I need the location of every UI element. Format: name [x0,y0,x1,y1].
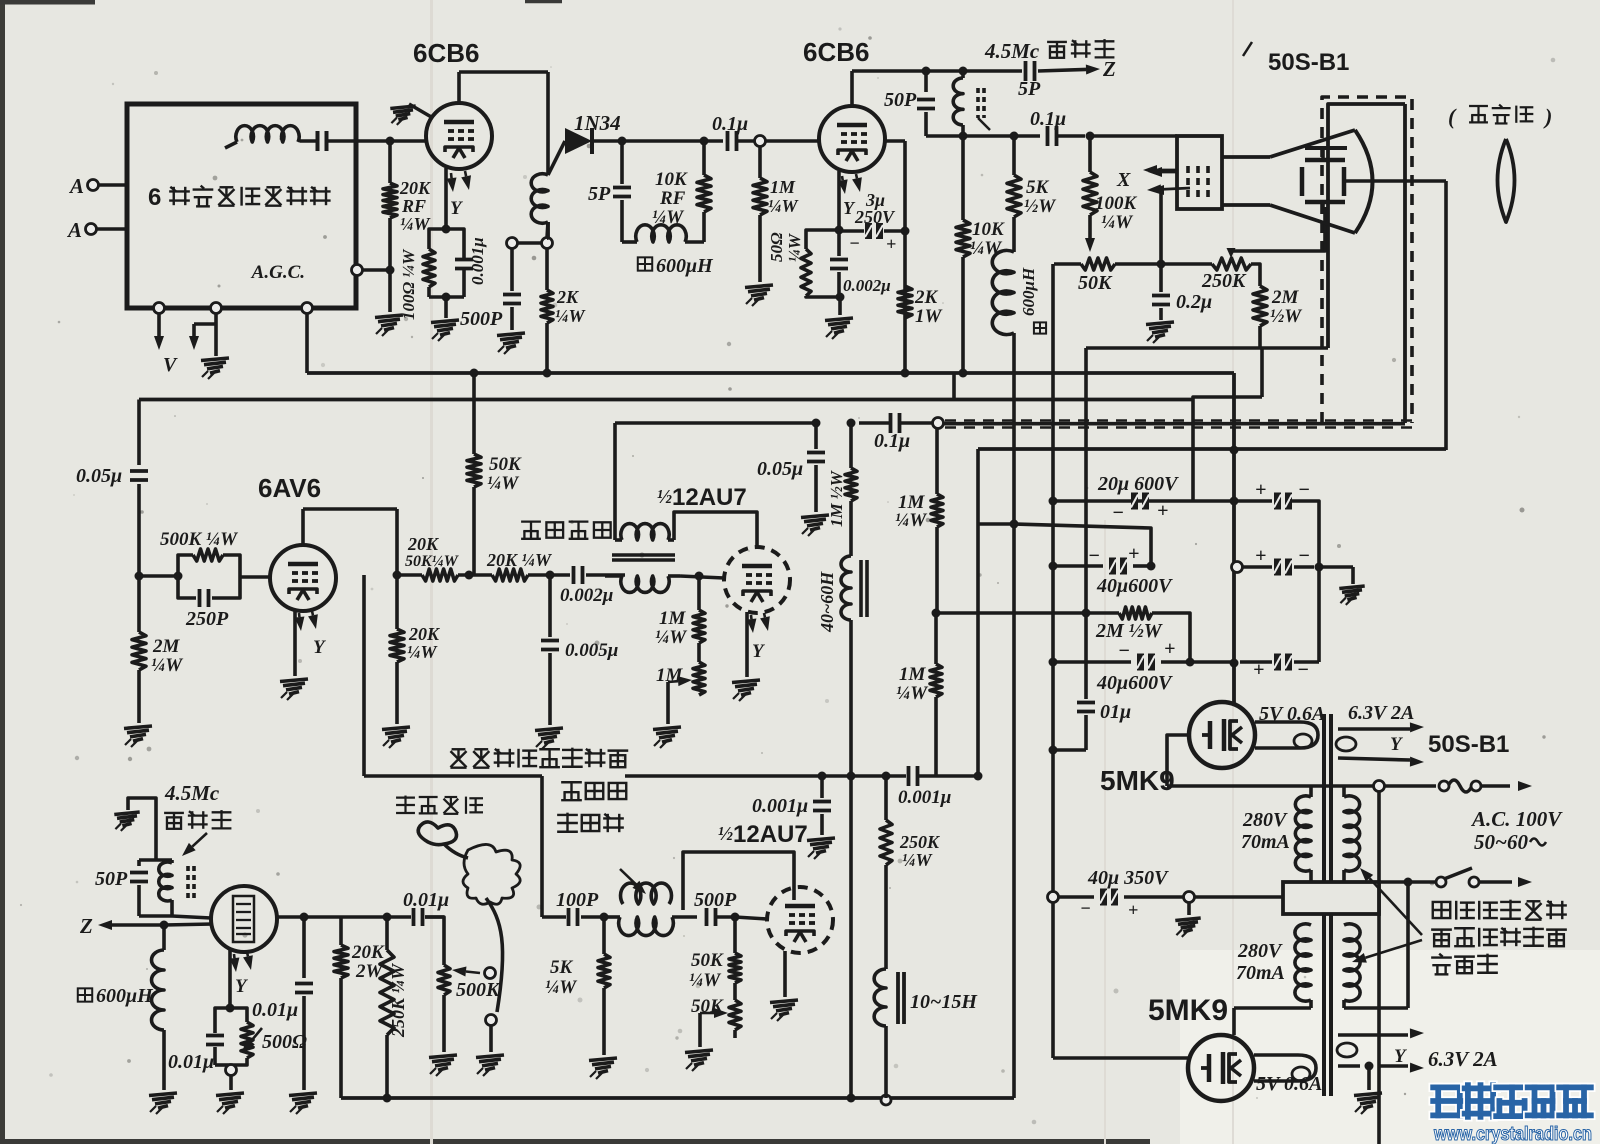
svg-text:50S-B1: 50S-B1 [1428,731,1509,758]
svg-text:2M: 2M [152,636,181,657]
svg-text:5K: 5K [550,957,574,978]
svg-text:A: A [66,218,82,242]
svg-text:0.002μ: 0.002μ [843,276,891,295]
svg-text:0.001μ: 0.001μ [752,795,808,817]
svg-text:100K: 100K [1095,193,1138,214]
svg-text:50Ω: 50Ω [767,232,786,262]
svg-text:www.crystalradio.cn: www.crystalradio.cn [1433,1124,1592,1144]
svg-text:+: + [1128,543,1139,565]
svg-text:250K: 250K [899,832,941,852]
svg-text:20K: 20K [407,534,440,554]
svg-text:20K: 20K [351,942,385,963]
svg-text:2K: 2K [556,287,580,307]
svg-text:40μ600V: 40μ600V [1096,672,1173,694]
svg-text:500P: 500P [694,889,737,911]
svg-text:50S-B1: 50S-B1 [1268,49,1349,76]
svg-text:40μ600V: 40μ600V [1096,575,1173,597]
svg-text:¼W: ¼W [655,627,687,648]
svg-text:¼W: ¼W [151,655,183,676]
svg-text:50K: 50K [489,454,522,475]
svg-text:0.001μ: 0.001μ [898,787,951,808]
svg-text:40~60H: 40~60H [817,571,837,633]
svg-text:Z: Z [1102,57,1116,81]
svg-text:A: A [68,174,84,198]
svg-text:+: + [1128,900,1138,920]
svg-text:10K: 10K [655,169,688,190]
svg-text:6CB6: 6CB6 [803,37,869,67]
svg-text:Z: Z [79,914,93,938]
svg-text:100Ω ¼W: 100Ω ¼W [399,248,418,320]
svg-text:A.G.C.: A.G.C. [251,262,305,283]
svg-text:−: − [1088,545,1100,567]
svg-text:50P: 50P [884,89,917,111]
svg-text:10~15H: 10~15H [910,991,978,1013]
svg-text:70mA: 70mA [1241,831,1290,853]
svg-text:4.5Mc: 4.5Mc [984,39,1040,63]
svg-text:500Ω: 500Ω [262,1031,307,1053]
svg-text:½: ½ [657,486,672,508]
svg-text:RF: RF [401,196,426,216]
svg-text:20K ¼W: 20K ¼W [486,550,553,570]
svg-text:½: ½ [718,823,733,845]
svg-text:1M: 1M [659,608,687,629]
svg-text:−: − [849,233,860,253]
svg-text:6.3V 2A: 6.3V 2A [1348,702,1414,724]
svg-text:X: X [1116,169,1131,191]
svg-text:10K: 10K [972,219,1005,240]
svg-text:100P: 100P [556,889,599,911]
svg-text:500K: 500K [456,979,501,1001]
svg-text:4.5Mc: 4.5Mc [164,781,220,805]
svg-text:¼W: ¼W [689,970,721,991]
svg-text:1M: 1M [899,664,927,685]
svg-text:¼W: ¼W [902,850,934,870]
svg-text:0.01μ: 0.01μ [168,1051,214,1073]
svg-text:): ) [1543,104,1552,129]
svg-text:¼W: ¼W [407,642,439,662]
svg-text:50P: 50P [95,868,128,890]
svg-text:+: + [886,234,896,254]
svg-text:−: − [1112,502,1124,524]
svg-text:5V 0.6A: 5V 0.6A [1259,703,1325,725]
svg-text:¼W: ¼W [400,214,432,234]
svg-text:5V 0.6A: 5V 0.6A [1256,1073,1322,1095]
svg-text:−: − [1118,640,1130,662]
svg-text:5P: 5P [1018,78,1041,100]
svg-text:40μ 350V: 40μ 350V [1087,867,1169,889]
svg-text:280V: 280V [1237,940,1283,962]
svg-text:¼W: ¼W [895,510,927,531]
svg-text:1M: 1M [770,177,796,197]
svg-text:0.05μ: 0.05μ [76,465,122,487]
svg-text:500P: 500P [460,308,503,330]
svg-text:250K ¼W: 250K ¼W [388,962,408,1038]
svg-text:¼W: ¼W [896,683,928,704]
svg-text:¼W: ¼W [768,196,800,216]
svg-text:12AU7: 12AU7 [733,821,808,848]
svg-text:600μH: 600μH [656,255,714,277]
svg-text:1M ½W: 1M ½W [827,469,846,527]
svg-text:01μ: 01μ [1100,701,1131,723]
svg-text:+: + [1164,638,1175,660]
svg-text:250K: 250K [1201,270,1247,292]
svg-text:RF: RF [659,188,686,209]
svg-text:20μ 600V: 20μ 600V [1097,473,1179,495]
svg-text:280V: 280V [1242,809,1288,831]
svg-text:1N34: 1N34 [574,111,621,135]
svg-text:¼W: ¼W [487,473,519,494]
svg-text:20K: 20K [408,624,441,644]
svg-text:−: − [1298,545,1310,567]
svg-text:¼W: ¼W [545,977,577,998]
svg-text:0.05μ: 0.05μ [757,458,803,480]
svg-text:+: + [1157,500,1168,522]
svg-text:6.3V 2A: 6.3V 2A [1428,1047,1498,1071]
svg-text:V: V [163,354,178,376]
svg-text:+: + [1255,479,1266,501]
svg-text:−: − [1298,479,1310,501]
svg-text:20K: 20K [399,178,432,198]
svg-text:12AU7: 12AU7 [672,484,747,511]
svg-text:0.2μ: 0.2μ [1176,291,1212,313]
svg-text:50K: 50K [1078,272,1113,294]
svg-text:¼W: ¼W [652,207,684,228]
svg-text:−: − [1297,659,1309,681]
svg-text:¼W: ¼W [970,238,1002,259]
svg-text:¼W: ¼W [555,306,587,326]
svg-text:2K: 2K [914,287,939,308]
svg-text:0.005μ: 0.005μ [565,640,618,661]
svg-text:500K ¼W: 500K ¼W [160,529,238,550]
svg-text:0.002μ: 0.002μ [560,585,613,606]
svg-text:¼W: ¼W [1101,212,1133,233]
svg-text:0.1μ: 0.1μ [712,113,748,135]
svg-text:+: + [1255,545,1266,567]
svg-text:250P: 250P [185,608,229,630]
svg-text:½W: ½W [1270,306,1302,327]
svg-text:0.01μ: 0.01μ [252,999,298,1021]
svg-text:600μH: 600μH [96,985,154,1007]
svg-text:5P: 5P [588,183,611,205]
svg-text:0.01μ: 0.01μ [403,889,449,911]
svg-text:5MK9: 5MK9 [1100,765,1175,796]
svg-text:50K: 50K [691,950,724,971]
svg-text:−: − [1080,898,1091,918]
svg-text:250V: 250V [854,207,896,227]
svg-text:50~60: 50~60 [1474,830,1528,854]
svg-text:A.C. 100V: A.C. 100V [1470,807,1563,831]
svg-text:0.1μ: 0.1μ [874,430,910,452]
svg-text:5K: 5K [1026,177,1050,198]
svg-text:6: 6 [148,184,161,211]
svg-text:2M: 2M [1271,287,1300,308]
svg-text:600μH: 600μH [1019,267,1038,316]
svg-text:+: + [1253,659,1264,681]
svg-text:6AV6: 6AV6 [258,473,321,503]
svg-text:5MK9: 5MK9 [1148,994,1228,1027]
svg-text:70mA: 70mA [1236,962,1285,984]
svg-text:0.001μ: 0.001μ [468,237,487,285]
svg-text:6CB6: 6CB6 [413,38,479,68]
svg-text:1W: 1W [915,306,943,327]
svg-text:2M ½W: 2M ½W [1095,620,1163,642]
svg-text:½W: ½W [1024,196,1056,217]
svg-text:0.1μ: 0.1μ [1030,108,1066,130]
